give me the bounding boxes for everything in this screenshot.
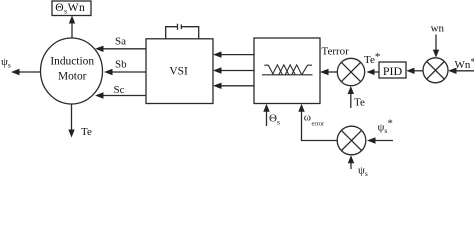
wire hysteresis to VSI middle (arrow left) <box>213 67 254 73</box>
svg-text:ΘsWn: ΘsWn <box>55 1 85 16</box>
label Te bottom left <box>81 126 92 138</box>
block hysteresis controller <box>254 38 320 104</box>
block PID <box>379 62 406 78</box>
label omega error <box>304 111 325 127</box>
wire wn input (arrow down) <box>433 35 439 58</box>
block induction motor (circle) <box>41 38 103 104</box>
wire Theta_s input (arrow up) <box>263 104 269 126</box>
label VSI <box>169 66 188 78</box>
svg-text:ω: ω <box>304 111 311 123</box>
wire flux error loop (sum3 to hysteresis bottom, arrow up) <box>298 104 337 141</box>
label Wn* <box>455 56 474 71</box>
label Sb <box>115 58 127 70</box>
label Theta_s Wn <box>55 1 85 16</box>
block Theta_s Wn estimator box <box>52 1 91 16</box>
svg-text:VSI: VSI <box>169 66 188 78</box>
label psi_s bottom <box>358 165 368 179</box>
svg-text:error: error <box>312 120 325 127</box>
wire psi_s feedback (arrow up) <box>348 155 354 169</box>
wire Terror (sum1 to hysteresis, arrow left) <box>320 69 337 75</box>
block VSI <box>146 39 213 104</box>
svg-text:Sa: Sa <box>115 36 126 48</box>
svg-text:Induction: Induction <box>50 56 94 68</box>
label Theta_s <box>269 113 280 127</box>
svg-text:Terror: Terror <box>322 46 350 58</box>
wire Te output (arrow down) <box>68 104 74 138</box>
wire motor to estimator box (arrow up) <box>69 16 75 39</box>
svg-text:Wn*: Wn* <box>455 56 474 71</box>
label PID <box>383 64 403 78</box>
wire Sb (VSI to motor) <box>104 69 146 75</box>
wire Te feedback into sum1 (arrow up) <box>348 86 354 108</box>
label psi_s left <box>1 56 11 70</box>
wire Sa (VSI to motor) <box>95 46 146 52</box>
wire Wn* input (arrow left) <box>448 68 474 74</box>
svg-text:Te: Te <box>354 96 365 108</box>
label Te feedback <box>354 96 365 108</box>
wire psi_s output (arrow left) <box>11 69 40 75</box>
svg-text:ψs: ψs <box>358 165 368 177</box>
svg-text:Sc: Sc <box>114 84 125 96</box>
svg-text:Θs: Θs <box>269 113 280 127</box>
svg-text:wn: wn <box>431 22 445 34</box>
wire hysteresis to VSI top (arrow left) <box>213 51 254 57</box>
hysteresis comparator symbol <box>262 65 313 75</box>
battery plate long <box>177 24 179 30</box>
summing junction sum1 (torque) <box>337 58 364 85</box>
wire sum2 to PID (arrow left) <box>406 68 423 74</box>
wire Sc (VSI to motor) <box>95 92 146 98</box>
label Te* <box>364 51 380 66</box>
svg-text:PID: PID <box>383 64 403 78</box>
svg-text:ψs: ψs <box>1 56 11 70</box>
svg-text:Sb: Sb <box>115 58 127 70</box>
svg-text:Te: Te <box>81 126 92 138</box>
wire DC link loop with battery <box>166 27 199 39</box>
label Sc <box>114 84 125 96</box>
summing junction sum3 (flux) <box>337 126 366 155</box>
wire hysteresis to VSI bottom (arrow left) <box>213 83 254 89</box>
svg-text:Te*: Te* <box>364 51 380 66</box>
label psi_s* <box>378 118 393 136</box>
summing junction sum2 (speed) <box>423 58 448 83</box>
svg-text:Motor: Motor <box>58 71 87 83</box>
wire PID to sum1 (arrow left) <box>367 69 380 75</box>
svg-text:ψs*: ψs* <box>378 118 393 136</box>
label Sa <box>115 36 126 48</box>
label wn <box>431 22 445 34</box>
label Terror <box>322 46 350 58</box>
label Induction Motor <box>50 56 94 83</box>
battery plate short <box>180 25 182 30</box>
wire psi_s* input (arrow left) <box>367 137 393 143</box>
